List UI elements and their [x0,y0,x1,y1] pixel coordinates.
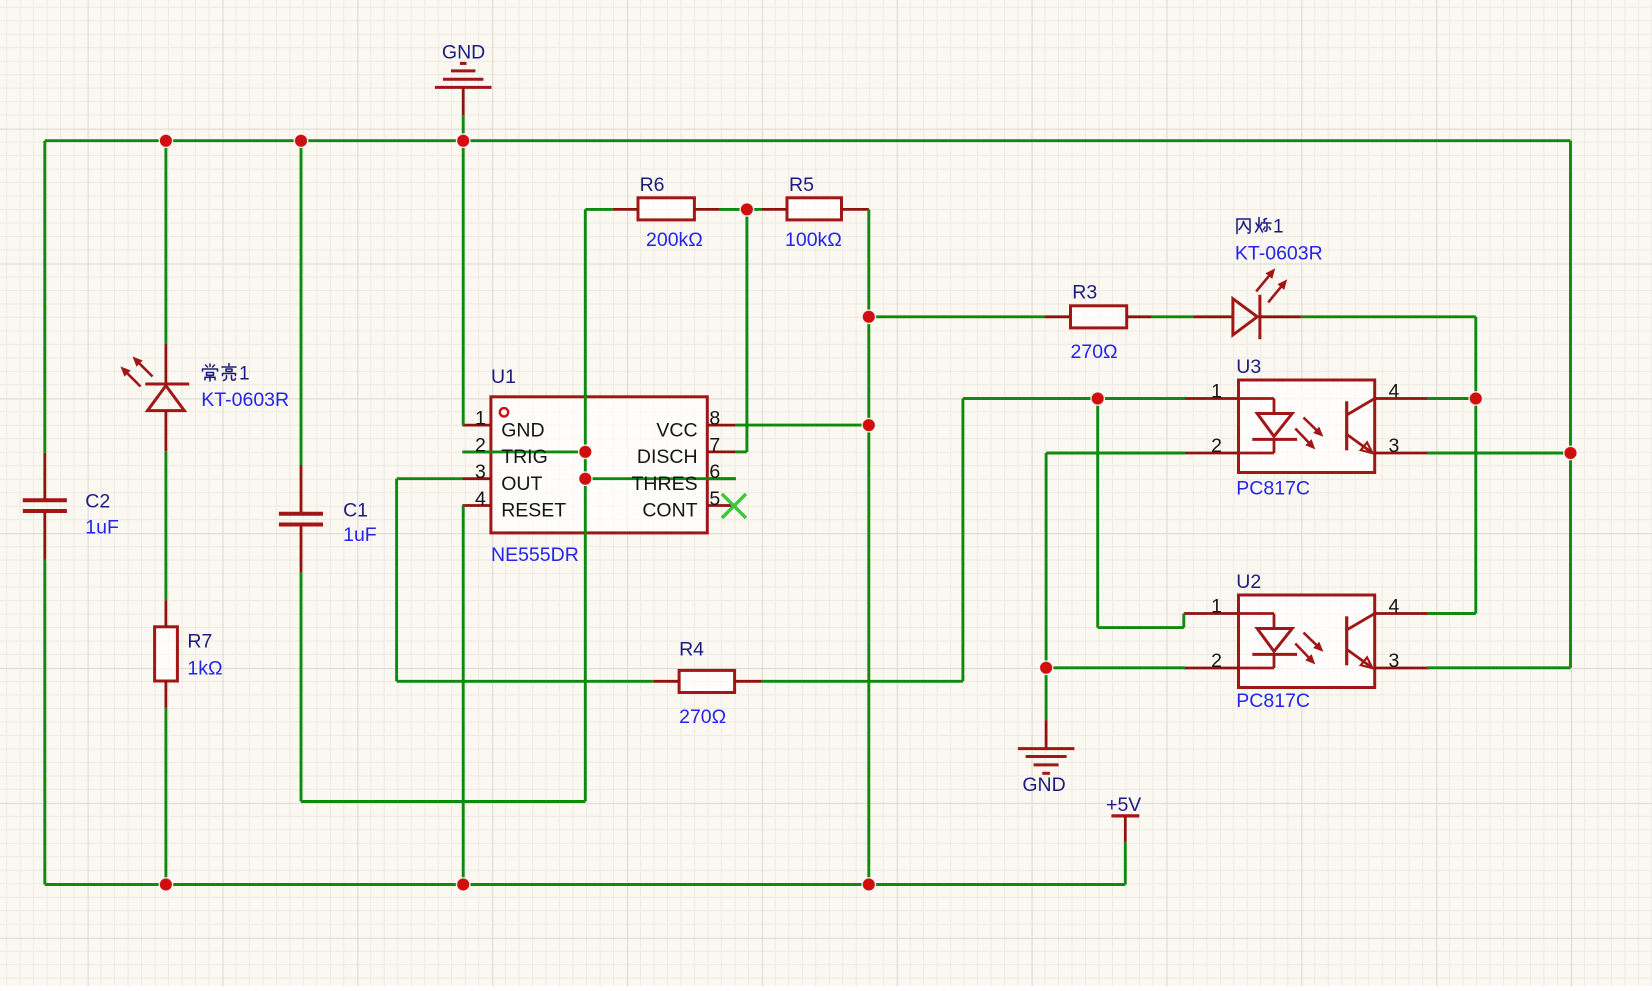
svg-text:THRES: THRES [632,473,698,495]
svg-text:GND: GND [442,41,485,63]
svg-text:U1: U1 [491,366,516,388]
svg-text:U3: U3 [1236,356,1261,378]
svg-text:U2: U2 [1236,571,1261,593]
svg-text:270Ω: 270Ω [679,706,726,728]
svg-text:R4: R4 [679,638,704,660]
svg-text:5: 5 [709,488,720,510]
svg-text:TRIG: TRIG [501,446,548,468]
svg-text:R7: R7 [187,631,212,653]
svg-text:RESET: RESET [501,500,566,522]
svg-text:4: 4 [475,488,486,510]
svg-text:1uF: 1uF [85,517,119,539]
svg-text:4: 4 [1389,595,1400,617]
svg-text:CONT: CONT [642,500,697,522]
svg-text:R6: R6 [640,174,665,196]
svg-text:C1: C1 [343,500,368,522]
svg-text:GND: GND [1022,774,1065,796]
svg-text:100kΩ: 100kΩ [785,229,842,251]
svg-text:1: 1 [1211,595,1222,617]
svg-text:KT-0603R: KT-0603R [201,389,289,411]
svg-text:2: 2 [1211,650,1222,672]
svg-text:NE555DR: NE555DR [491,544,579,566]
svg-text:1: 1 [475,408,486,430]
svg-text:PC817C: PC817C [1236,478,1310,500]
svg-text:VCC: VCC [656,419,697,441]
svg-text:OUT: OUT [501,473,542,495]
svg-text:1: 1 [1211,380,1222,402]
svg-text:7: 7 [709,434,720,456]
svg-text:1kΩ: 1kΩ [187,657,222,679]
svg-text:3: 3 [1389,650,1400,672]
svg-text:1: 1 [239,364,250,385]
svg-text:DISCH: DISCH [637,446,698,468]
svg-text:2: 2 [475,434,486,456]
svg-text:C2: C2 [85,491,110,513]
svg-text:4: 4 [1389,380,1400,402]
svg-text:R3: R3 [1072,282,1097,304]
svg-text:KT-0603R: KT-0603R [1235,243,1323,265]
svg-text:GND: GND [501,419,544,441]
svg-text:200kΩ: 200kΩ [646,229,703,251]
svg-text:+5V: +5V [1106,794,1141,816]
svg-text:270Ω: 270Ω [1071,341,1118,363]
svg-text:2: 2 [1211,435,1222,457]
svg-text:PC817C: PC817C [1236,690,1310,712]
svg-text:1uF: 1uF [343,524,377,546]
svg-text:3: 3 [475,461,486,483]
svg-text:8: 8 [709,408,720,430]
svg-text:R5: R5 [789,174,814,196]
svg-text:3: 3 [1389,435,1400,457]
svg-text:6: 6 [709,461,720,483]
svg-text:1: 1 [1273,217,1284,238]
